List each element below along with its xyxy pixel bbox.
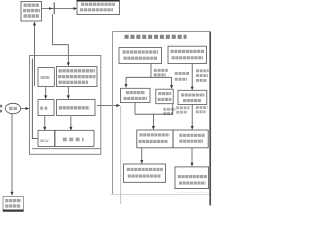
box SMS: SMS module (38, 68, 54, 87)
right frame: simulation platform container (111, 32, 211, 206)
box B1: data receive/parse module (3 lines) (57, 67, 98, 87)
box row2 big: protocol parse module (1 line) (57, 100, 96, 116)
label near merge stub (163, 109, 175, 113)
wire junction down into left frame big box (53, 14, 70, 66)
box TL: monitoring center box (top-left) (21, 2, 42, 22)
box F: LPWA simulated data (121, 88, 151, 102)
label right of arrow (data generate) (196, 71, 209, 81)
box H: standard mode host (137, 130, 173, 148)
box D: receive simulated data (173, 130, 208, 148)
label left of arrow (LoRa mode) (175, 74, 189, 80)
box row3 small: SOCK submodule (38, 130, 55, 146)
box row3 big: database (spaced chars) (55, 130, 94, 146)
inner horizontal line under row3 boxes (32, 148, 100, 150)
ellipse: mobile phone user (5, 103, 20, 113)
svg-text:SMS: SMS (40, 75, 50, 80)
box TR: SMS gateway server box (top-right) (77, 1, 120, 15)
title: spaced characters at top of right frame (125, 35, 187, 39)
arrow ellipse to left frame (21, 107, 30, 110)
wire from SMS module up into TL box (arrow up) (33, 22, 36, 87)
box G2: gateway simulation system (178, 90, 207, 104)
box G: protocol mode (156, 89, 173, 104)
arrow row2 to row3 (left) (43, 116, 46, 130)
box I: data display terminal (124, 164, 166, 182)
wire TL to TR with junction tick (42, 2, 77, 14)
arrow row2 to row3 (right) (69, 116, 72, 130)
inner L wire inside left frame (32, 59, 37, 139)
long light wire inside right frame going down (120, 106, 122, 204)
merge wires from F and G into box H (135, 103, 173, 130)
arrow box H down to box I (140, 148, 143, 164)
box row2 small: transceiver submodule (38, 100, 54, 116)
arrow from left frame to right frame (enters near box F) (97, 104, 120, 107)
label right of G2-D arrow (196, 108, 208, 112)
arrow box B down to box G2 (191, 64, 194, 91)
label left of G2-D arrow (176, 108, 189, 112)
arrow row1 to row2 (left) (44, 87, 47, 99)
box A: simulated terminal device (119, 48, 162, 64)
wire box A down, splits to box F and box G (125, 64, 174, 89)
left frame: gateway unit container (30, 56, 101, 155)
wire ellipse down to bottom-left box (11, 114, 14, 196)
cut-off glyphs at left edge (0, 105, 2, 113)
faint dotted line near bottom of box E (179, 191, 209, 193)
svg-text:MCU: MCU (40, 139, 49, 143)
arrow box G2 down to box D (191, 105, 194, 130)
arrow box D down to box E (191, 148, 194, 167)
arrow row1 to row2 (right) (67, 87, 70, 99)
label next to center split wire (154, 70, 168, 75)
box E: analysis and display (175, 167, 209, 189)
box bottom-left: user handset (3, 197, 24, 212)
box B: monitor client (168, 46, 207, 63)
